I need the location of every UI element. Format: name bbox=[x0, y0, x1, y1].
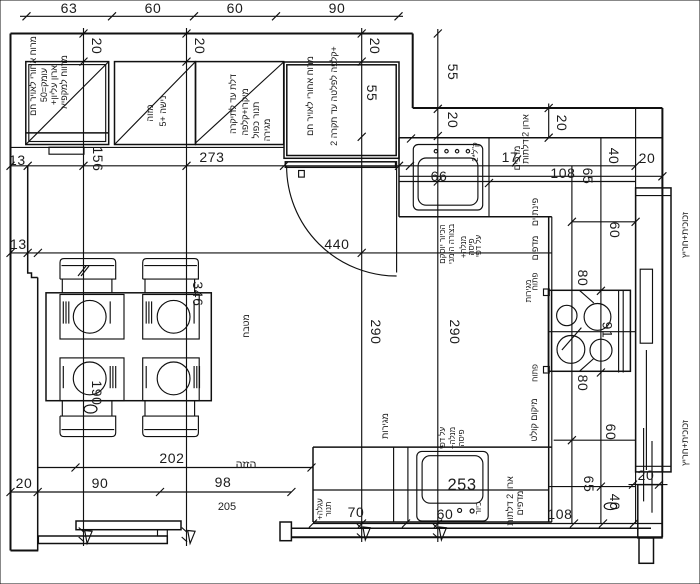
svg-text:תנור כפול: תנור כפול bbox=[251, 102, 261, 139]
wall column at sliding door bbox=[280, 522, 291, 541]
chair bottom-right bbox=[143, 401, 199, 437]
svg-text:40: 40 bbox=[607, 494, 623, 511]
cooktop left double edge bbox=[550, 290, 552, 371]
dim line y440 bbox=[554, 439, 635, 441]
dim vertical D x437.8 bbox=[437, 29, 439, 542]
bottom counter small divider bbox=[393, 447, 395, 522]
wall left bbox=[10, 34, 12, 551]
cooktop outline bbox=[548, 290, 630, 371]
svg-text:מרוח אחורי לאויר חם: מרוח אחורי לאויר חם bbox=[305, 56, 315, 136]
svg-text:על דפי: על דפי bbox=[474, 235, 483, 258]
right counter left edge bbox=[398, 138, 400, 217]
cabinet box2 pantry bbox=[115, 62, 196, 145]
tick bbox=[23, 12, 31, 20]
top sink bowl bbox=[418, 158, 478, 205]
wall top-right vertical bbox=[412, 34, 414, 109]
svg-text:ארון 2 דלתות: ארון 2 דלתות bbox=[505, 476, 515, 526]
fridge door swing arc bbox=[287, 166, 397, 276]
wall left inner step bbox=[28, 166, 38, 278]
ticks cooktop bbox=[597, 287, 605, 295]
plate top-left bbox=[73, 300, 106, 333]
table top bbox=[46, 293, 211, 401]
svg-text:5+ נישה: 5+ נישה bbox=[158, 96, 168, 127]
sliding door panel B bbox=[38, 536, 167, 544]
svg-text:108: 108 bbox=[550, 165, 575, 181]
svg-text:מדפים: מדפים bbox=[530, 236, 540, 261]
burner top-left bbox=[557, 305, 577, 325]
cup ellipse bbox=[84, 405, 97, 413]
svg-text:60: 60 bbox=[607, 222, 623, 239]
svg-text:קלפה לפלטה עד תקרה 2+: קלפה לפלטה עד תקרה 2+ bbox=[329, 46, 339, 146]
svg-text:55: 55 bbox=[364, 85, 380, 102]
right door lines bbox=[643, 428, 645, 501]
dim line y166 bbox=[11, 165, 636, 167]
svg-text:60: 60 bbox=[227, 0, 244, 16]
right strip edge inner bbox=[551, 217, 553, 522]
svg-text:זכוכית+חריץ: זכוכית+חריץ bbox=[680, 212, 690, 258]
svg-text:מרוח אחורי לאויר חם: מרוח אחורי לאויר חם bbox=[28, 36, 38, 116]
dim line y486.6 bbox=[549, 486, 636, 488]
plate bottom-left bbox=[73, 362, 106, 395]
svg-text:מטבח: מטבח bbox=[241, 314, 251, 337]
cutlery bottom-right bbox=[145, 366, 147, 388]
fridge door handle bbox=[299, 171, 305, 178]
cooktop chamfer bottom bbox=[579, 359, 593, 372]
arrow C bbox=[357, 524, 370, 540]
top sink tap holes bbox=[434, 150, 437, 153]
svg-text:290: 290 bbox=[368, 319, 384, 344]
sliding door panel A bbox=[76, 521, 181, 530]
svg-text:מיקרו+קלפה: מיקרו+קלפה bbox=[240, 88, 250, 135]
svg-text:דלת עד לתיקרה: דלת עד לתיקרה bbox=[228, 74, 238, 134]
dim seg x548.7 top bbox=[548, 104, 550, 138]
wall bottom right end bbox=[661, 472, 663, 537]
svg-text:440: 440 bbox=[324, 236, 349, 252]
placemat top-right bbox=[143, 295, 200, 340]
svg-text:מדפים: מדפים bbox=[515, 491, 525, 516]
svg-text:זכוכית+חריץ: זכוכית+חריץ bbox=[680, 420, 690, 466]
top sink outer bbox=[413, 145, 482, 211]
cooktop midline bbox=[548, 331, 636, 333]
tall cabinet top shelf line bbox=[636, 195, 671, 197]
svg-text:90: 90 bbox=[329, 0, 346, 16]
svg-text:20: 20 bbox=[367, 38, 383, 55]
svg-text:תנור: תנור bbox=[324, 502, 333, 517]
svg-text:66: 66 bbox=[431, 168, 448, 184]
tick 440 bbox=[358, 249, 366, 257]
svg-text:290: 290 bbox=[447, 319, 463, 344]
cutlery top-left bbox=[62, 301, 64, 323]
dim line y181.5 bbox=[399, 181, 636, 183]
dim line top bbox=[20, 15, 403, 17]
svg-text:20: 20 bbox=[554, 115, 570, 132]
right counter section bottom bbox=[399, 216, 552, 218]
svg-text:פתוח: פתוח bbox=[531, 364, 540, 382]
ticks 440 left bbox=[7, 249, 15, 257]
fridge door slab bbox=[285, 162, 395, 168]
wall right upper horizontal bbox=[413, 107, 663, 109]
svg-text:40: 40 bbox=[606, 148, 622, 165]
ticks on verticals at wall bbox=[80, 30, 88, 38]
burner bottom-left bbox=[557, 336, 585, 364]
svg-text:65: 65 bbox=[581, 476, 597, 493]
svg-text:20: 20 bbox=[445, 112, 461, 129]
svg-text:346: 346 bbox=[190, 281, 206, 306]
bottom sink outer bbox=[417, 451, 488, 521]
fridge body bbox=[284, 62, 399, 158]
svg-text:156: 156 bbox=[90, 146, 106, 171]
cabinet box3 oven tower bbox=[196, 62, 284, 145]
tall cabinet right wall bbox=[636, 188, 671, 472]
bottom counter top edge bbox=[313, 446, 552, 448]
wall left inner bbox=[37, 278, 39, 551]
arrow A bbox=[79, 528, 92, 544]
dim line 440 y253 bbox=[11, 252, 552, 254]
fridge door leaf open bbox=[396, 161, 398, 273]
plate bottom-right bbox=[157, 362, 190, 395]
dim line y492 bbox=[11, 491, 292, 493]
tall cabinet inner line bbox=[645, 350, 647, 470]
bottom counter bottom edge bbox=[313, 521, 552, 523]
burner bottom-right bbox=[590, 339, 612, 361]
bottom sink bowl bbox=[422, 456, 483, 504]
dim vertical B x186.5 bbox=[186, 28, 188, 546]
right counter divider bbox=[488, 138, 490, 217]
svg-text:על דפי: על דפי bbox=[438, 427, 447, 450]
wall bottom right inner bbox=[291, 527, 651, 529]
svg-text:202: 202 bbox=[159, 450, 184, 466]
svg-text:20: 20 bbox=[638, 467, 655, 483]
svg-text:70: 70 bbox=[348, 504, 365, 520]
svg-text:253: 253 bbox=[447, 476, 476, 494]
svg-text:מיקום קולט: מיקום קולט bbox=[529, 398, 539, 441]
svg-text:ארון 2 דלתות: ארון 2 דלתות bbox=[521, 114, 531, 164]
svg-text:מזוה: מזוה bbox=[145, 104, 155, 121]
chair top-right bbox=[143, 259, 199, 293]
tick counter corner bbox=[407, 135, 415, 143]
svg-text:273: 273 bbox=[199, 149, 224, 165]
svg-text:65: 65 bbox=[580, 168, 596, 185]
placemat bottom-left bbox=[60, 358, 124, 401]
right lower small box bbox=[639, 538, 654, 563]
svg-text:63: 63 bbox=[61, 0, 78, 16]
svg-text:כיור: כיור bbox=[474, 502, 483, 515]
chair bottom-left bbox=[60, 401, 116, 437]
dim verticals right bbox=[571, 166, 573, 524]
svg-text:80: 80 bbox=[575, 375, 591, 392]
svg-text:הכיור יוסקם: הכיור יוסקם bbox=[438, 224, 447, 263]
box1 tray bbox=[49, 147, 84, 154]
burner top-right bbox=[584, 304, 611, 331]
svg-text:+מנלה: +מנלה bbox=[448, 427, 457, 449]
svg-text:פינתיים: פינתיים bbox=[530, 198, 540, 226]
cooktop chamfer top bbox=[579, 290, 593, 303]
arrow D bbox=[433, 524, 446, 540]
svg-text:בצורה הימני: בצורה הימני bbox=[447, 224, 456, 264]
bottom counter left edge bbox=[312, 447, 314, 522]
svg-text:מרווח למקפיא: מרווח למקפיא bbox=[59, 55, 69, 109]
svg-text:50=עומק: 50=עומק bbox=[39, 68, 49, 102]
small dim 20 right bottom bbox=[636, 465, 671, 467]
svg-text:205: 205 bbox=[218, 501, 236, 513]
wall right bbox=[661, 108, 663, 472]
svg-text:55: 55 bbox=[445, 64, 461, 81]
svg-text:מגירה: מגירה bbox=[262, 119, 272, 142]
svg-text:2*ק"ל: 2*ק"ל bbox=[471, 142, 480, 162]
svg-text:הזזה: הזזה bbox=[236, 459, 257, 471]
svg-text:מדפים: מדפים bbox=[512, 146, 522, 171]
dim line y176 bbox=[399, 175, 662, 177]
dim line bottom y523.5 bbox=[313, 523, 662, 525]
cutlery bottom-left bbox=[62, 366, 64, 388]
arrow B bbox=[182, 528, 195, 544]
svg-text:13: 13 bbox=[10, 236, 27, 252]
svg-text:60: 60 bbox=[145, 0, 162, 16]
svg-text:20: 20 bbox=[192, 38, 208, 55]
svg-text:80: 80 bbox=[575, 270, 591, 287]
cooktop hinge top bbox=[544, 289, 550, 296]
svg-text:20: 20 bbox=[89, 38, 105, 55]
dim line y221.8 bbox=[572, 221, 636, 223]
svg-text:+ארון עליון: +ארון עליון bbox=[49, 65, 59, 105]
svg-text:13: 13 bbox=[9, 152, 26, 168]
wall bottom right outer bbox=[291, 536, 662, 538]
bottom sink tap holes bbox=[458, 508, 462, 512]
svg-text:108: 108 bbox=[547, 506, 572, 522]
break mark on A bbox=[78, 266, 89, 276]
svg-text:20: 20 bbox=[639, 150, 656, 166]
right counter top edge bbox=[399, 137, 662, 139]
svg-text:190: 190 bbox=[89, 380, 105, 405]
cutlery top-right bbox=[145, 301, 147, 323]
svg-text:פיסה: פיסה bbox=[457, 429, 466, 446]
cooktop hinge bottom bbox=[544, 367, 550, 374]
sliding door overlap box bbox=[158, 530, 168, 536]
svg-text:60: 60 bbox=[603, 424, 619, 441]
cabinet box1 washing machine bbox=[26, 62, 109, 145]
plate top-right bbox=[157, 300, 190, 333]
svg-text:20: 20 bbox=[16, 475, 33, 491]
svg-text:מגירות: מגירות bbox=[524, 280, 533, 303]
tall cabinet inner box bbox=[640, 269, 652, 343]
wall bottom left bbox=[11, 550, 39, 552]
svg-text:60: 60 bbox=[437, 506, 454, 522]
dim line y467.5 bbox=[38, 467, 313, 469]
right strip edge outer bbox=[548, 217, 550, 522]
bottom counter divider bbox=[407, 447, 409, 522]
drawer handle ellipse bbox=[604, 503, 616, 510]
dim line y490 mid bbox=[313, 489, 549, 491]
dim vertical C x361.7 bbox=[361, 28, 363, 542]
wall top bbox=[11, 33, 413, 35]
right lower cabinet bbox=[638, 485, 662, 538]
right cab dim ticks bbox=[632, 218, 640, 226]
svg-text:מגירות: מגירות bbox=[380, 413, 390, 439]
dim vertical A x83.5 bbox=[83, 28, 85, 546]
svg-text:98: 98 bbox=[215, 474, 232, 490]
placemat top-left bbox=[60, 295, 124, 340]
cooktop right panel lines bbox=[618, 291, 620, 373]
svg-text:90: 90 bbox=[92, 475, 109, 491]
placemat bottom-right bbox=[143, 358, 200, 401]
counter front edge top-left bbox=[11, 146, 285, 148]
svg-text:91: 91 bbox=[600, 322, 616, 339]
chair top-left bbox=[60, 259, 116, 293]
